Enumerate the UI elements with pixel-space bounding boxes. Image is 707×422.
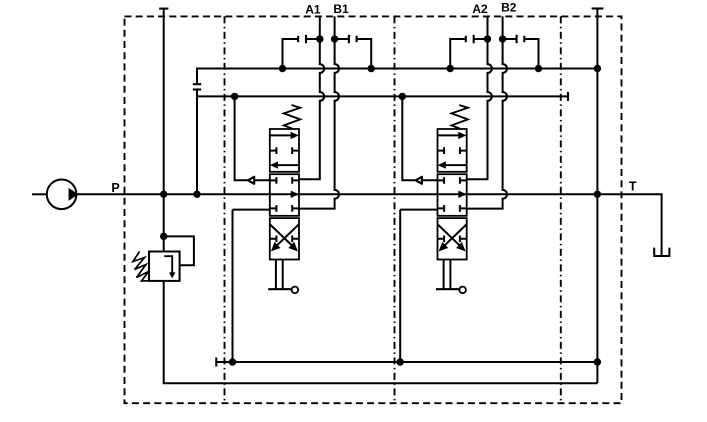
pump flow triangle — [70, 190, 77, 199]
V1 position box 2 — [270, 174, 299, 216]
tank gallery end cap — [215, 358, 217, 367]
V2 actuator roller — [459, 287, 466, 294]
V1 arrow right box1 — [270, 134, 291, 136]
V1 arrowheads — [291, 132, 299, 139]
svg-text:A2: A2 — [472, 2, 488, 16]
wire B1 plugged branch — [335, 38, 349, 40]
V1 position box 3 — [270, 218, 299, 259]
node bus1 x B2 plug — [535, 65, 542, 72]
wire B2 line — [467, 16, 507, 208]
bus2 end cap — [567, 92, 569, 101]
section separator 2 — [394, 16, 396, 403]
node tank gallery v2 — [397, 358, 404, 365]
wire P riser with plugged top (left vertical) — [163, 9, 165, 252]
wire B1 line — [299, 16, 339, 208]
wire tank gallery — [216, 361, 597, 363]
relief valve internal arrow — [164, 256, 172, 273]
wire pilot feed valve 1 — [235, 96, 270, 180]
node tank gallery T — [594, 358, 601, 365]
V2 position box 3 — [438, 218, 467, 259]
V2 actuator stem — [444, 260, 451, 290]
V2 actuator bar — [436, 288, 459, 290]
node bus1 x A1 plug — [279, 65, 286, 72]
V1 closed port pair box1 — [270, 147, 299, 154]
svg-text:B1: B1 — [333, 2, 349, 16]
valve section V2 — [436, 105, 468, 293]
pump circle — [47, 180, 77, 210]
node P x T riser — [594, 191, 601, 198]
plugged port cap top left — [159, 8, 168, 10]
wire relief valve outlet to bottom line — [164, 281, 598, 383]
relief valve RV1 body — [149, 252, 180, 281]
node B2 branch — [499, 35, 506, 42]
section separator 1 — [224, 16, 226, 403]
V2 position box 1 — [438, 129, 467, 172]
enclosure dashed border — [125, 16, 622, 403]
valve section V1 — [268, 105, 300, 293]
V1 actuator bar — [268, 288, 291, 290]
plug bar lower — [193, 88, 201, 90]
V2 closed port pair box3 — [438, 236, 467, 243]
node tank gallery v1 — [229, 358, 236, 365]
V2 closed port pair box1 — [438, 147, 467, 154]
V2 closed port pair box2 bottom — [438, 205, 467, 212]
V1 closed port pair box2 bottom — [270, 205, 299, 212]
svg-text:A1: A1 — [305, 2, 321, 16]
wire P line — [76, 194, 661, 256]
V1 closed port pair box2 top — [270, 177, 299, 184]
V2 pilot open arrowhead — [416, 177, 422, 184]
node bus1 x T riser — [594, 65, 601, 72]
V2 arrow left box1 — [446, 164, 467, 166]
V1 closed port pair box3 — [270, 236, 299, 243]
wire T return riser — [596, 9, 598, 384]
V1 actuator stem — [276, 260, 283, 290]
V1 cross arrows box3 — [270, 224, 299, 248]
plug bar upper — [193, 83, 201, 85]
wire tank port valve 2 — [400, 210, 437, 362]
tank symbol at T — [654, 248, 669, 256]
wire A2 line — [467, 16, 492, 179]
wire tank port valve 1 — [233, 210, 270, 362]
node bus2 pilot 2 — [399, 93, 406, 100]
wire upper gallery bus1 — [197, 69, 597, 85]
wire A2 plugged branch — [474, 38, 488, 40]
node A1 branch — [316, 35, 323, 42]
node relief pilot tap — [160, 233, 167, 240]
wire A1 line — [299, 16, 324, 179]
wire pilot feed valve 2 — [402, 96, 437, 180]
V2 arrowheads — [458, 132, 466, 139]
V1 pilot open arrowhead — [248, 177, 254, 184]
V1 spring — [284, 105, 300, 129]
node bus2 pilot 1 — [231, 93, 238, 100]
relief valve spring — [133, 252, 149, 282]
wire plug column to P line — [196, 90, 198, 195]
V2 position box 2 — [438, 174, 467, 216]
relief valve pilot line — [164, 236, 194, 265]
node bus1 x A2 plug — [447, 65, 454, 72]
node A2 branch — [484, 35, 491, 42]
V2 cross arrows box3 — [438, 224, 467, 248]
svg-text:B2: B2 — [501, 1, 517, 15]
svg-text:P: P — [111, 181, 119, 195]
node B1 branch — [331, 35, 338, 42]
V2 spring — [452, 105, 468, 129]
plugged port cap top right — [592, 7, 604, 9]
wire lower gallery bus2 — [197, 95, 568, 97]
node bus1 x B1 plug — [368, 65, 375, 72]
svg-text:T: T — [629, 179, 637, 193]
V2 closed port pair box2 top — [438, 177, 467, 184]
V1 position box 1 — [270, 129, 299, 172]
V2 arrow right box1 — [438, 134, 459, 136]
node P x plug column — [193, 191, 200, 198]
wire B2 plugged branch — [503, 38, 517, 40]
section separator 3 — [560, 16, 562, 403]
V1 actuator roller — [292, 287, 299, 294]
node P x riser — [160, 191, 167, 198]
V1 arrow left box1 — [278, 164, 299, 166]
wire A1 plugged branch — [306, 38, 320, 40]
pump inlet stub wire — [32, 193, 47, 195]
